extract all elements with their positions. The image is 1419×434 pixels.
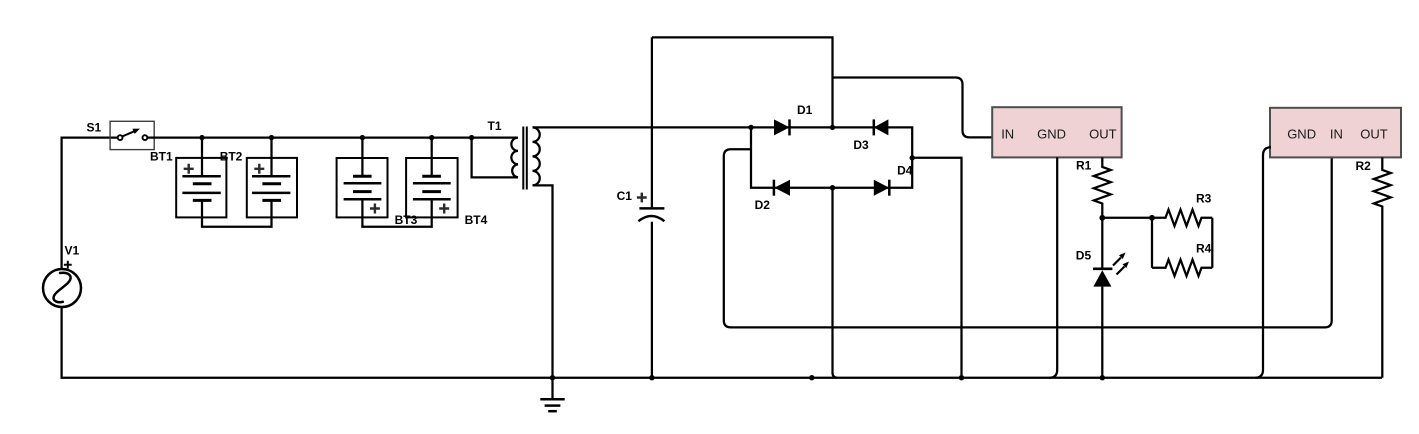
- wire: U2 GND left pin to bottom rail: [1255, 147, 1271, 378]
- node: R1-D5 junction: [1099, 215, 1105, 221]
- battery BT4: [406, 158, 458, 217]
- battery BT3: [337, 158, 388, 217]
- wire: BT1 top lead: [201, 138, 203, 177]
- wire: V1 top to switch S1: [62, 138, 118, 269]
- ground: [551, 378, 553, 399]
- wire: BT1-BT2 bottom link: [202, 200, 272, 226]
- wire: main top rail: [147, 136, 518, 138]
- wire: node to LED D5: [1101, 218, 1103, 269]
- diode D4: [874, 180, 890, 196]
- transformer T1 secondary winding: [533, 127, 540, 185]
- wire: bottom rail: [62, 307, 1382, 378]
- BT3 polarity plus: [370, 204, 380, 214]
- node: bridge bottom-mid junction: [830, 185, 835, 190]
- wire: C1 top loop to bridge mid: [652, 37, 833, 127]
- wire: diode bridge frame: [751, 127, 912, 187]
- wire: branch to U1 IN pin: [833, 78, 993, 138]
- wire: BT3 top lead: [361, 138, 363, 177]
- diode D3: [873, 119, 876, 135]
- svg-text:BT4: BT4: [465, 213, 488, 227]
- svg-text:OUT: OUT: [1089, 127, 1117, 142]
- battery BT2: [247, 158, 297, 218]
- transformer T1 core: [523, 127, 527, 190]
- wire: node to R3/R4 pair: [1102, 217, 1152, 219]
- node: T1 primary junction: [469, 135, 474, 140]
- svg-text:V1: V1: [65, 244, 80, 258]
- V1 polarity plus: [64, 261, 72, 269]
- svg-text:T1: T1: [488, 119, 502, 133]
- wire: U1 GND pin to bottom rail: [1049, 157, 1057, 377]
- wire: bridge bottom-mid to bottom rail: [833, 188, 838, 378]
- wire: T1 secondary bottom to ground rail: [533, 185, 553, 377]
- svg-text:GND: GND: [1037, 127, 1066, 142]
- node: BT4 top junction: [429, 135, 434, 140]
- resistor R2: [1374, 157, 1391, 377]
- svg-text:S1: S1: [87, 121, 102, 135]
- wire: R3/R4 left side link: [1151, 218, 1153, 268]
- LED D5: [1093, 267, 1112, 270]
- svg-text:D4: D4: [897, 164, 913, 178]
- C1 polarity plus: [637, 193, 647, 203]
- node: bridge top-mid junction: [830, 125, 835, 130]
- wire: T1 primary return: [472, 138, 518, 178]
- svg-text:IN: IN: [1330, 127, 1343, 142]
- svg-text:IN: IN: [1001, 127, 1014, 142]
- BT2 polarity plus: [254, 164, 264, 174]
- svg-text:R2: R2: [1356, 159, 1372, 173]
- AC source V1: [43, 269, 81, 307]
- node: R3/R4 left junction: [1149, 215, 1155, 221]
- node: bridge right junction: [910, 155, 915, 160]
- transformer T1 primary winding: [511, 138, 518, 178]
- node: BT3 top junction: [360, 135, 365, 140]
- resistor R4: [1152, 260, 1212, 276]
- wire: C1 bottom lead: [651, 222, 653, 378]
- svg-text:C1: C1: [617, 189, 633, 203]
- svg-text:OUT: OUT: [1360, 127, 1388, 142]
- wire: bridge right node to bottom rail: [912, 158, 961, 378]
- diode D1: [774, 119, 790, 135]
- switch S1: [110, 121, 154, 149]
- node: rail junction at C1: [649, 375, 654, 380]
- node: rail junction at D5: [1100, 375, 1105, 380]
- node: rail junction at bridge right wire: [959, 375, 964, 380]
- svg-text:D2: D2: [755, 198, 771, 212]
- wire: C1 top lead: [651, 37, 653, 207]
- node: BT2 top junction: [269, 135, 274, 140]
- capacitor C1: [639, 207, 664, 210]
- diode D2: [773, 180, 776, 196]
- BT1 polarity plus: [184, 164, 194, 174]
- svg-text:D3: D3: [853, 138, 869, 152]
- svg-text:R3: R3: [1196, 192, 1212, 206]
- D5 emission arrows: [1113, 258, 1121, 266]
- wire: D5 to bottom rail: [1101, 287, 1103, 378]
- svg-text:BT1: BT1: [150, 150, 173, 164]
- node: bridge top-left junction: [748, 125, 753, 130]
- resistor R3: [1152, 210, 1212, 226]
- node: rail junction mid: [809, 375, 814, 380]
- svg-text:D1: D1: [797, 103, 813, 117]
- svg-text:GND: GND: [1287, 127, 1316, 142]
- wire: R3/R4 right side link: [1211, 218, 1213, 268]
- wire: bridge left tap to U2 IN: [724, 149, 1332, 327]
- svg-text:R1: R1: [1076, 159, 1092, 173]
- wire: BT4 top lead: [431, 138, 433, 177]
- regulator U1: [992, 107, 1121, 157]
- battery BT1: [176, 158, 226, 218]
- node: rail junction at T1 secondary: [550, 375, 555, 380]
- svg-text:BT2: BT2: [220, 150, 243, 164]
- resistor R1: [1094, 157, 1111, 217]
- wire: BT2 top lead: [270, 138, 272, 177]
- svg-text:R4: R4: [1196, 242, 1212, 256]
- wire: BT3-BT4 bottom link: [362, 199, 431, 227]
- wire: T1 secondary top to bridge: [533, 126, 752, 128]
- svg-text:D5: D5: [1076, 249, 1092, 263]
- BT4 polarity plus: [439, 204, 449, 214]
- regulator U2: [1270, 108, 1401, 158]
- node: BT1 top junction: [199, 135, 204, 140]
